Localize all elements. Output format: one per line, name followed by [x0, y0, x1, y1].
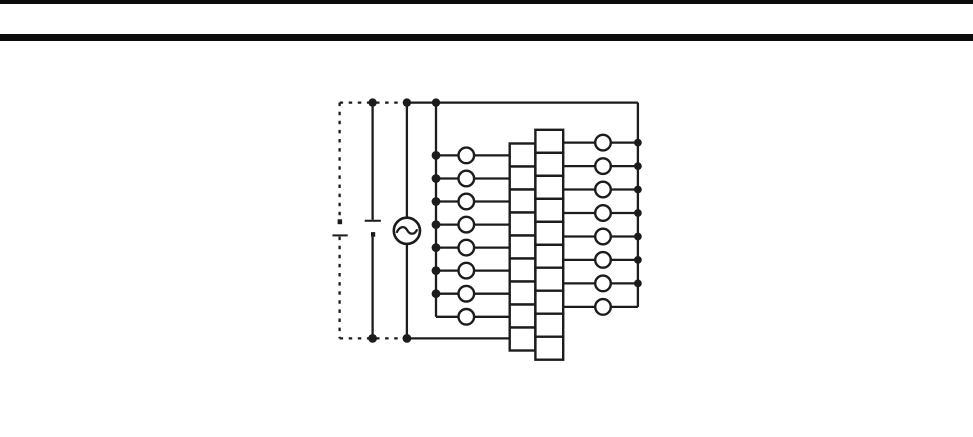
wire right bus [637, 103, 639, 307]
wire [436, 200, 459, 202]
wire [371, 103, 373, 220]
wire [611, 165, 638, 167]
resistor R11 [535, 153, 563, 176]
wire [611, 282, 638, 284]
resistor R17 [535, 291, 563, 314]
wire [436, 293, 459, 295]
wire [563, 259, 595, 261]
resistor R8 [510, 305, 536, 328]
junction [634, 280, 642, 288]
resistor R1 [510, 144, 536, 167]
wire top rail [407, 101, 638, 103]
wire left bus [435, 103, 437, 317]
wire [406, 103, 408, 218]
junction [432, 243, 441, 252]
junction [368, 334, 377, 343]
lamp L2 [459, 171, 475, 187]
wire [611, 235, 638, 237]
junction [432, 266, 441, 275]
resistor R7 [510, 282, 536, 305]
wire [563, 282, 595, 284]
wire [474, 269, 510, 271]
lamp L13 [595, 229, 611, 245]
resistor R5 [510, 236, 536, 259]
wire [563, 188, 595, 190]
junction [432, 289, 441, 298]
battery B1 [332, 219, 347, 235]
wire [563, 141, 595, 143]
junction [634, 139, 642, 147]
resistor R3 [510, 190, 536, 213]
lamp L3 [459, 194, 475, 210]
junction [634, 186, 642, 194]
wire [474, 223, 510, 225]
wire [563, 165, 595, 167]
lamp L10 [595, 158, 611, 174]
lamp L9 [595, 135, 611, 151]
wire [436, 316, 459, 318]
junction [432, 197, 441, 206]
wire [436, 154, 459, 156]
lamp L11 [595, 182, 611, 198]
lamp L15 [595, 276, 611, 292]
wire [436, 223, 459, 225]
junction [634, 233, 642, 241]
resistor R18 [535, 314, 563, 337]
junction [634, 162, 642, 170]
AC source G1 [394, 218, 420, 244]
lamp L1 [459, 148, 475, 164]
resistor R12 [535, 176, 563, 199]
resistor R9 [510, 328, 536, 351]
wire [474, 177, 510, 179]
resistor R16 [535, 268, 563, 291]
lamp L14 [595, 252, 611, 268]
junction [432, 98, 440, 106]
wire [563, 306, 595, 308]
junction [634, 209, 642, 217]
lamp L6 [459, 263, 475, 279]
lamp L8 [459, 309, 475, 325]
wire [611, 259, 638, 261]
junction [403, 334, 412, 343]
wire [371, 237, 373, 339]
junction [368, 98, 376, 106]
wire [474, 293, 510, 295]
wire [474, 200, 510, 202]
wire [611, 306, 638, 308]
junction [432, 174, 441, 183]
wire [474, 154, 510, 156]
wire [611, 212, 638, 214]
lamp L7 [459, 286, 475, 302]
battery B2 [365, 221, 381, 237]
lamp L5 [459, 240, 475, 256]
wire bottom rail [407, 337, 510, 339]
junction [634, 256, 642, 264]
wire [611, 141, 638, 143]
resistor R14 [535, 222, 563, 245]
lamp L4 [459, 217, 475, 233]
wire [436, 269, 459, 271]
wire [563, 212, 595, 214]
resistor R4 [510, 213, 536, 236]
wire [611, 188, 638, 190]
wire [406, 244, 408, 338]
lamp L12 [595, 205, 611, 221]
resistor R13 [535, 199, 563, 222]
resistor R6 [510, 259, 536, 282]
resistor R2 [510, 167, 536, 190]
junction [432, 220, 441, 229]
dashed battery enclosure [340, 103, 407, 339]
resistor R19 [535, 337, 563, 360]
wire [474, 316, 510, 318]
lamp L16 [595, 299, 611, 315]
junction [403, 98, 411, 106]
resistor R10 [535, 130, 563, 153]
junction [432, 151, 441, 160]
wire [436, 177, 459, 179]
wire [474, 246, 510, 248]
wire [563, 235, 595, 237]
wire [436, 246, 459, 248]
resistor R15 [535, 245, 563, 268]
